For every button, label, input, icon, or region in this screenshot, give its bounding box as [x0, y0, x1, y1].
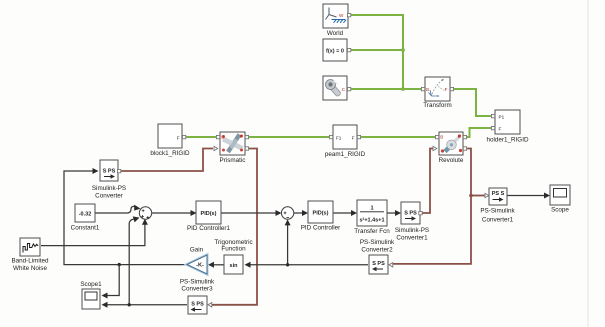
svg-text:Converter1: Converter1	[396, 234, 428, 241]
wire Sum2 out to PID Controller	[294, 212, 306, 214]
svg-text:peam1_RIGID: peam1_RIGID	[325, 151, 366, 158]
wire PID Controller out to Transfer Fcn	[333, 212, 355, 214]
port square Revolute F	[463, 135, 466, 138]
wire Sum2 bottom feedback	[287, 222, 289, 265]
svg-text:Simulink-PS: Simulink-PS	[395, 227, 429, 234]
svg-text:S PS: S PS	[404, 211, 417, 217]
port triangle PSSim3 input	[208, 303, 212, 307]
block peam1_RIGID	[325, 125, 366, 158]
port square Transform B	[421, 87, 424, 90]
wire branch down to Scope1 input 1	[104, 265, 119, 296]
wire Constant1 to Sum1	[95, 206, 135, 213]
port square SimPS1 out	[419, 211, 422, 214]
block PS-Simulink Converter3 (flipped)	[180, 278, 215, 314]
port square config C	[347, 87, 350, 90]
block PID Controller	[301, 201, 341, 232]
svg-text:F: F	[352, 135, 355, 140]
block Trigonometric Function	[214, 239, 252, 274]
svg-text:PS-Simulink: PS-Simulink	[480, 207, 515, 214]
svg-text:holder1_RIGID: holder1_RIGID	[487, 137, 529, 144]
wire PS-Simulink Converter2 out to sin	[247, 264, 368, 266]
svg-text:F1: F1	[336, 135, 342, 140]
port square Revolute q output	[463, 147, 466, 150]
port triangle Revolute f actuation input	[433, 146, 437, 150]
svg-text:Band-Limited: Band-Limited	[11, 257, 49, 264]
block PS-Simulink Converter1	[480, 188, 515, 223]
port square solver	[347, 48, 350, 51]
port square peam1 F1	[329, 135, 332, 138]
port triangle Prismatic f actuation input	[214, 146, 218, 150]
block Scope	[550, 185, 570, 214]
wire config C to Transform B	[351, 88, 423, 90]
block Prismatic joint	[220, 132, 246, 164]
block Transfer Fcn	[354, 200, 390, 235]
wire block1 F to Prismatic B	[183, 136, 218, 138]
svg-text:f(x) = 0: f(x) = 0	[326, 48, 344, 54]
svg-text:White Noise: White Noise	[13, 265, 47, 272]
block Solver Configuration f(x)=0	[323, 39, 347, 61]
node junction config trunk	[401, 87, 405, 91]
svg-text:F: F	[458, 134, 461, 139]
node junction converter3 out	[128, 303, 131, 306]
block holder1_RIGID	[487, 110, 529, 144]
svg-text:W: W	[339, 13, 344, 18]
svg-text:Converter2: Converter2	[361, 247, 393, 254]
block Constant1	[71, 204, 100, 232]
svg-text:1: 1	[370, 206, 373, 212]
svg-text:s²+1.4s+1: s²+1.4s+1	[359, 216, 384, 223]
svg-text:PS-Simulink: PS-Simulink	[360, 239, 395, 246]
svg-text:F: F	[445, 87, 448, 92]
port square Transform F	[450, 87, 453, 90]
port square SimPS out	[117, 169, 120, 172]
svg-text:B: B	[221, 135, 224, 140]
svg-text:Scope1: Scope1	[80, 281, 102, 288]
wire Sum1 out to PID Controller1	[152, 212, 195, 214]
wire Revolute F to holder1 F	[464, 128, 492, 137]
port triangle PSSim1 input	[485, 193, 489, 197]
canvas boundary line	[587, 0, 589, 327]
wire PS-Simulink Converter1 out to Scope	[507, 195, 548, 197]
wire peam1 F to Revolute B	[358, 136, 437, 138]
port square Revolute B	[435, 135, 438, 138]
svg-text:B: B	[440, 135, 443, 140]
svg-text:F: F	[499, 126, 502, 131]
wire Transfer Fcn out to Simulink-PS Converter1	[387, 212, 399, 214]
svg-text:Constant1: Constant1	[71, 225, 100, 232]
svg-text:P1: P1	[499, 114, 505, 119]
svg-text:Scope: Scope	[551, 207, 569, 214]
svg-text:S PS: S PS	[191, 302, 204, 308]
svg-text:Revolute: Revolute	[439, 157, 464, 164]
block Band-Limited White Noise	[11, 238, 49, 272]
svg-text:PS S: PS S	[492, 191, 505, 197]
wire PID Controller1 out to Sum2	[221, 212, 279, 214]
svg-text:S PS: S PS	[372, 261, 385, 267]
svg-text:PID(s): PID(s)	[201, 211, 217, 217]
port square block1 F	[182, 135, 185, 138]
port square Prismatic B	[216, 135, 219, 138]
svg-text:PS-Simulink: PS-Simulink	[180, 278, 215, 285]
block Mechanism Configuration	[323, 76, 347, 100]
port square Prismatic F	[245, 135, 248, 138]
svg-text:-K-: -K-	[196, 263, 204, 269]
svg-text:Gain: Gain	[190, 246, 204, 253]
svg-text:block1_RIGID: block1_RIGID	[150, 150, 190, 157]
wire solver to trunk	[351, 49, 403, 51]
wire sin out to Gain	[210, 264, 224, 266]
svg-text:F: F	[240, 134, 243, 139]
wire Converter3 out to Scope1 input 2	[104, 304, 187, 306]
wire Prismatic F to peam1 F1	[246, 136, 330, 138]
svg-text:B: B	[426, 87, 429, 92]
svg-text:S PS: S PS	[103, 169, 116, 175]
block Transform (Rigid Transform)	[423, 77, 451, 109]
svg-text:World: World	[327, 30, 344, 37]
sum Sum1	[139, 207, 151, 219]
node junction sum2 feedback	[286, 263, 289, 266]
svg-text:F: F	[177, 135, 180, 140]
block PID Controller1	[187, 201, 231, 232]
port square holder1 F	[491, 126, 494, 129]
port square holder1 P1	[491, 114, 494, 117]
svg-text:-0.32: -0.32	[79, 211, 92, 217]
wire Transform F to holder1 P1	[451, 89, 492, 116]
svg-text:Converter1: Converter1	[482, 216, 514, 223]
svg-text:PID Controller1: PID Controller1	[187, 225, 231, 232]
svg-text:sin: sin	[230, 263, 239, 269]
port square peam1 F	[357, 135, 360, 138]
svg-text:Converter: Converter	[95, 192, 123, 199]
svg-text:Transform: Transform	[423, 102, 451, 109]
node junction f(x) trunk	[401, 48, 405, 52]
wire noise to Sum1 bottom	[41, 223, 145, 246]
wire World W to trunk	[351, 15, 403, 89]
svg-text:Function: Function	[221, 245, 246, 252]
node junction gain out scope1 branch	[118, 263, 121, 266]
block Scope1 (flipped)	[80, 281, 102, 309]
wire Simulink-PS Converter1 out to Revolute f input	[421, 149, 434, 214]
port square World W	[347, 13, 350, 16]
wire Gain out feedback to Simulink-PS Converter	[64, 171, 187, 265]
svg-text:Simulink-PS: Simulink-PS	[92, 185, 126, 192]
wire feedback up into Sum1 lower-left	[129, 219, 133, 304]
node junction revolute q branch	[469, 194, 473, 198]
block block1_RIGID	[150, 124, 190, 157]
port square Prismatic p output	[245, 147, 248, 150]
wire Simulink-PS Converter out to Prismatic f input	[119, 149, 213, 172]
wire branch to PS-Simulink Converter1 in	[471, 195, 486, 197]
sum Sum2	[281, 207, 293, 219]
block Simulink-PS Converter	[92, 160, 126, 199]
port triangle PSSim2 input	[389, 263, 393, 267]
block World	[323, 4, 348, 37]
svg-text:Transfer Fcn: Transfer Fcn	[354, 228, 390, 235]
block Simulink-PS Converter1	[395, 202, 429, 241]
wire Revolute q out down trunk	[393, 149, 471, 264]
block Revolute joint	[439, 132, 464, 164]
svg-text:PID(s): PID(s)	[313, 211, 329, 217]
block PS-Simulink Converter2 (flipped)	[360, 239, 395, 274]
svg-text:Prismatic: Prismatic	[220, 157, 246, 164]
block Gain (selected)	[187, 246, 207, 274]
wire Prismatic p out to PS-Simulink Converter3 in	[212, 149, 257, 305]
svg-text:PID Controller: PID Controller	[301, 225, 341, 232]
svg-text:Converter3: Converter3	[181, 285, 213, 292]
